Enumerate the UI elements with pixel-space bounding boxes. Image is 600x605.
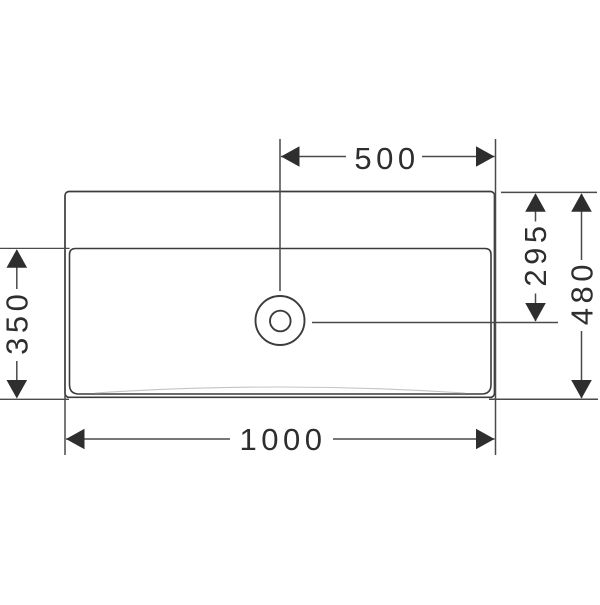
svg-text:480: 480: [564, 260, 599, 325]
extension line: 350 bottom horizontal (y=398.8): [0, 398, 69, 400]
dimension 1000: left arrow: [66, 429, 85, 450]
outer basin rectangle: [65, 192, 495, 398]
extension line: drain center vertical (x=280): [279, 139, 281, 291]
dimension 1000: right arrow: [476, 429, 495, 450]
svg-text:350: 350: [0, 290, 35, 355]
svg-text:295: 295: [518, 221, 553, 286]
extension line: left vertical below basin (x=65): [64, 394, 66, 455]
dimension 500: line left segment: [281, 156, 346, 158]
extension line: right top horizontal (y=192.4): [501, 191, 597, 193]
inner bowl outline: [70, 249, 492, 395]
dimension 295: line lower segment: [535, 294, 537, 322]
dimension 480: top arrow: [571, 193, 592, 212]
dimension 480: line lower segment: [581, 331, 583, 398]
extension line: right bottom horizontal (y=399): [489, 398, 598, 400]
dimension 1000: line right segment: [333, 438, 495, 440]
dimension 350: bottom arrow: [7, 380, 28, 399]
dimension 480: line upper segment: [581, 194, 583, 260]
svg-text:1000: 1000: [240, 422, 327, 457]
dimension 350: line lower segment: [16, 361, 18, 397]
bowl floor faint arc: [95, 387, 465, 393]
extension line: 350 top horizontal (y=248.4): [0, 247, 70, 249]
dimension 295: top arrow: [525, 193, 546, 212]
dimension 500: right arrow: [476, 146, 495, 167]
dimension 350: line upper segment: [16, 250, 18, 289]
extension line: drain horizontal (y=322.5): [312, 322, 558, 324]
extension line: right vertical (x=495.5): [495, 139, 497, 455]
dimension 295: line upper segment: [535, 194, 537, 222]
drain inner circle: [270, 311, 291, 332]
dimension 350: top arrow: [7, 249, 28, 268]
dimension 295: bottom arrow: [525, 303, 546, 322]
drain outer circle: [256, 296, 305, 345]
svg-text:500: 500: [354, 141, 419, 176]
dimension 480: bottom arrow: [571, 380, 592, 399]
dimension 500: left arrow: [281, 146, 300, 167]
dimension 500: line right segment: [422, 156, 495, 158]
dimension 1000: line left segment: [66, 438, 230, 440]
